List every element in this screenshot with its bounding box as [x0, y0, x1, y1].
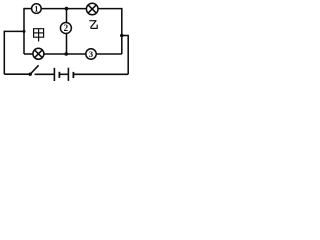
wire row right segment: [96, 53, 122, 55]
wire outer left vertical: [3, 31, 5, 74]
battery cell 2 long plate: [67, 68, 69, 81]
wire switch to battery: [35, 73, 55, 75]
meter 3: [86, 49, 96, 59]
wire between battery cells: [59, 73, 68, 75]
wire battery to bottom-right: [73, 73, 128, 75]
switch S: [29, 65, 39, 76]
meter 2: [60, 23, 71, 34]
battery cell 1 short plate: [58, 72, 60, 78]
lamp jia (left): [33, 48, 44, 59]
wire bottom-left segment: [4, 73, 29, 75]
label jia (甲): [34, 29, 44, 42]
battery cell 1 long plate: [53, 68, 55, 81]
wire left vertical: [23, 8, 25, 54]
meter 1: [32, 4, 42, 14]
node junction row (between lamp jia and meter 3): [64, 52, 68, 56]
wire outer right vertical: [127, 36, 129, 75]
wire right vertical (lamp branch to row): [121, 8, 123, 54]
wire meter-2 branch vertical: [66, 9, 68, 54]
svg-text:1: 1: [34, 5, 38, 14]
node junction left tap: [23, 30, 26, 33]
wire top-left segment: [24, 8, 32, 10]
wire right branch horizontal: [122, 35, 129, 37]
lamp yi (top): [86, 3, 98, 15]
svg-text:2: 2: [64, 23, 69, 33]
node junction top (between meter 1 and lamp yi): [65, 7, 69, 11]
wire left corner to lamp jia: [24, 53, 33, 55]
label yi (乙): [90, 21, 97, 29]
svg-text:3: 3: [89, 49, 94, 59]
wire top-right segment: [98, 8, 122, 10]
node junction right (tap to battery): [120, 34, 124, 38]
wire top-middle segment: [41, 8, 86, 10]
wire left tap horizontal: [4, 30, 24, 32]
wire row left segment (lamp jia to meter 3): [44, 53, 86, 55]
battery cell 2 short plate: [72, 72, 74, 78]
